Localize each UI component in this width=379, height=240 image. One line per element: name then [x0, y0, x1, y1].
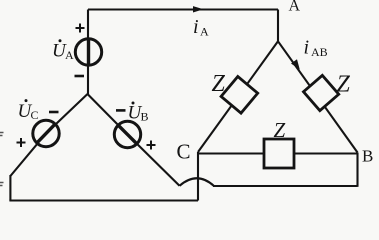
wire UA source to star point N [87, 63, 89, 94]
wire delta side A to C [198, 41, 278, 152]
svg-text:A: A [65, 48, 74, 62]
label IAB [304, 37, 328, 60]
wire left vertical from top to UA source [87, 10, 89, 42]
wire left-bottom vertical [9, 175, 11, 201]
label UC [18, 99, 39, 122]
svg-text:C: C [177, 140, 191, 164]
impedance Z box on C-B branch [264, 139, 294, 168]
wire lower right horizontal [213, 185, 358, 187]
voltage source UA internal bar [87, 40, 90, 64]
svg-text:AB: AB [311, 45, 328, 59]
wire C vertical drop [197, 152, 199, 201]
impedance Z box on A-B branch [303, 75, 338, 110]
wire horizontal C to B through Z [198, 152, 358, 154]
polarity minus of UC [49, 111, 59, 114]
svg-text:i: i [193, 16, 199, 38]
polarity plus of UB [147, 141, 156, 150]
svg-text:C: C [31, 108, 39, 122]
wire star N to corner via UC source [10, 94, 87, 176]
impedance Z box on A-C branch [221, 76, 258, 113]
wire star N to UB source down-right [88, 94, 180, 186]
wire top horizontal A-phase [88, 8, 278, 10]
polarity plus of UA [76, 24, 85, 33]
svg-text:A: A [289, 0, 301, 15]
wire crossover bump over C vertical [180, 178, 215, 186]
wire right vertical up to node B [356, 153, 358, 187]
voltage source UB circle [114, 121, 140, 147]
label IA [193, 16, 209, 39]
label UA [52, 39, 74, 62]
wire right vertical from top wire to delta apex A [277, 10, 279, 42]
svg-text:Z: Z [274, 118, 286, 142]
svg-text:Z: Z [337, 72, 351, 98]
wire bottom horizontal to C drop [9, 199, 198, 201]
svg-text:Z: Z [212, 71, 226, 97]
svg-text:i: i [304, 37, 310, 59]
wire delta side A to B [278, 41, 358, 152]
svg-text:A: A [200, 25, 209, 39]
polarity minus of UA [75, 75, 85, 78]
svg-text:B: B [141, 110, 149, 124]
voltage source UC internal bar [38, 125, 55, 143]
voltage source UC circle [33, 120, 59, 146]
scan artifact marks left edge [0, 133, 4, 186]
polarity minus of UB [116, 109, 126, 112]
arrow current IA on top wire [193, 6, 204, 12]
svg-text:B: B [362, 147, 373, 166]
arrow current IAB on A-B wire [291, 59, 300, 69]
polarity plus of UC [17, 138, 26, 147]
voltage source UB internal bar [119, 126, 136, 143]
label UB [128, 102, 149, 124]
voltage source UA circle [75, 39, 101, 65]
